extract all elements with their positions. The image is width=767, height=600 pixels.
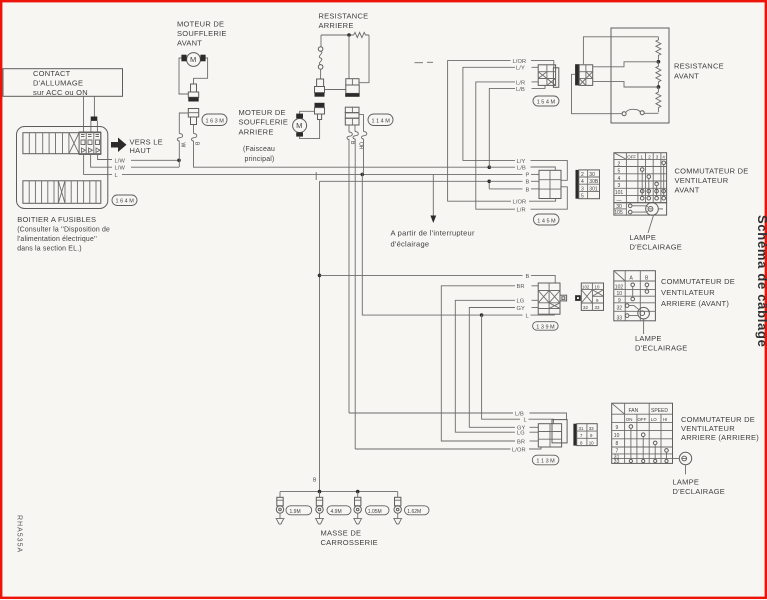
wire B bus from front motor to 145M xyxy=(194,141,490,167)
mate indicator (black square) xyxy=(575,295,581,301)
ground label 1.62M xyxy=(405,506,430,515)
svg-text:L/OR: L/OR xyxy=(513,59,527,65)
svg-text:33: 33 xyxy=(617,315,623,321)
svg-text:4: 4 xyxy=(581,179,584,185)
wire tap2 to connector xyxy=(593,81,659,87)
svg-text:30: 30 xyxy=(616,204,622,210)
wire OR from 114M down to 113M L/OR corner xyxy=(354,139,356,449)
svg-text:2: 2 xyxy=(581,172,584,178)
svg-text:1 6 3 M: 1 6 3 M xyxy=(206,118,225,124)
wire L from 114M hook down to L-bus node xyxy=(362,139,363,174)
svg-text:OFF: OFF xyxy=(627,154,636,159)
svg-text:9: 9 xyxy=(596,298,599,303)
fuse X cell xyxy=(69,133,79,154)
wire lamp to caption 139M xyxy=(643,319,645,334)
svg-text:7: 7 xyxy=(580,433,583,438)
resistor R3 (front) xyxy=(656,87,661,112)
svg-text:BR: BR xyxy=(517,284,525,290)
wire pad to fuse strip left xyxy=(90,121,92,133)
wire L/OR loop 154M to 145M xyxy=(531,61,554,68)
connector 139M block xyxy=(538,283,560,314)
wire L/B from 154M to B bus node xyxy=(532,85,546,88)
svg-text:B: B xyxy=(526,274,530,280)
wire B from 114M down to 113M L/B corner xyxy=(348,140,350,413)
svg-text:4.9M: 4.9M xyxy=(331,509,342,515)
svg-text:principal): principal) xyxy=(245,156,275,163)
fuse row bottom xyxy=(23,181,101,204)
svg-text:LO: LO xyxy=(651,417,657,422)
connector 145M block xyxy=(539,170,561,198)
wire 114M right hook with inline joint xyxy=(359,115,364,132)
contacts rear switch front xyxy=(631,283,635,287)
svg-text:(Faisceau: (Faisceau xyxy=(243,146,275,153)
node L/B junction xyxy=(488,165,492,169)
svg-text:105: 105 xyxy=(614,210,623,216)
svg-text:L: L xyxy=(115,173,118,179)
pin table 139M xyxy=(581,283,603,310)
svg-text:RESISTANCE: RESISTANCE xyxy=(674,62,724,71)
arrow VERS LE HAUT xyxy=(111,138,127,153)
wire LG loop 139M to 113M xyxy=(532,299,539,301)
ground terminal 3 xyxy=(357,492,359,498)
svg-text:L/B: L/B xyxy=(517,165,526,171)
svg-text:LAMPE: LAMPE xyxy=(635,334,662,343)
svg-text:33: 33 xyxy=(595,305,600,310)
svg-text:B: B xyxy=(645,275,649,281)
wire lamp to caption 113M xyxy=(685,465,687,475)
svg-text:1: 1 xyxy=(641,154,644,159)
switch contacts front xyxy=(662,161,666,165)
svg-text:CARROSSERIE: CARROSSERIE xyxy=(321,538,378,547)
wire pad to fuse strip right xyxy=(96,121,98,133)
svg-text:LAMPE: LAMPE xyxy=(630,233,657,242)
wire W drop with inline joint xyxy=(179,113,188,134)
svg-text:1 4 5 M: 1 4 5 M xyxy=(537,218,556,224)
svg-text:30B: 30B xyxy=(589,179,599,185)
svg-text:1 1 4 M: 1 1 4 M xyxy=(372,118,391,124)
svg-text:VENTILATEUR: VENTILATEUR xyxy=(675,176,729,185)
svg-text:MOTEUR DE: MOTEUR DE xyxy=(239,108,286,117)
wire GY loop 139M to 113M xyxy=(532,307,539,309)
svg-text:L/R: L/R xyxy=(516,80,525,86)
resistor R1 (front) xyxy=(656,37,661,60)
svg-text:1 6 4 M: 1 6 4 M xyxy=(116,199,135,205)
ground terminal 2 xyxy=(319,492,321,498)
svg-text:102: 102 xyxy=(582,285,590,290)
svg-text:COMMUTATEUR DE: COMMUTATEUR DE xyxy=(661,277,735,286)
svg-text:102: 102 xyxy=(615,284,624,290)
svg-text:4: 4 xyxy=(662,154,665,159)
ground label 1.9M xyxy=(286,506,312,515)
svg-text:D'ECLAIRAGE: D'ECLAIRAGE xyxy=(630,243,683,252)
svg-text:32: 32 xyxy=(583,305,588,310)
svg-text:GY: GY xyxy=(517,426,526,432)
svg-text:ARRIERE: ARRIERE xyxy=(319,21,354,30)
svg-text:d'éclairage: d'éclairage xyxy=(391,240,430,249)
wire resistor top xyxy=(321,34,354,36)
svg-text:31: 31 xyxy=(579,426,584,431)
svg-text:(Consulter la ''Disposition de: (Consulter la ''Disposition de xyxy=(17,227,110,234)
wire L/Y loop 154M to 145M xyxy=(532,66,539,68)
wire L/R loop 154M to 145M xyxy=(532,81,539,83)
node front resistor tap 2 xyxy=(657,85,661,89)
wire B to 145M (from ground riser corner) xyxy=(320,181,490,189)
connector label 145M xyxy=(534,214,560,225)
svg-text:D'ALLUMAGE: D'ALLUMAGE xyxy=(33,79,83,88)
svg-text:A partir de l'interrupteur: A partir de l'interrupteur xyxy=(391,229,475,238)
svg-text:9: 9 xyxy=(616,425,619,431)
motor M rear xyxy=(293,119,307,133)
svg-text:5: 5 xyxy=(618,169,621,175)
svg-text:CONTACT: CONTACT xyxy=(33,69,71,78)
svg-text:SOUFFLERIE: SOUFFLERIE xyxy=(239,118,289,127)
svg-text:L: L xyxy=(524,418,527,424)
svg-text:ARRIERE (ARRIERE): ARRIERE (ARRIERE) xyxy=(681,433,759,442)
wire L to 139M and 113M xyxy=(480,313,484,317)
wire motor front left brush xyxy=(179,58,189,94)
svg-text:L/B: L/B xyxy=(516,87,525,93)
thermal fuse xyxy=(644,112,658,114)
svg-text:B: B xyxy=(194,142,200,146)
svg-text:HI: HI xyxy=(663,417,667,422)
svg-text:L/R: L/R xyxy=(517,208,526,214)
svg-text:2: 2 xyxy=(648,154,651,159)
svg-text:SOUFFLERIE: SOUFFLERIE xyxy=(177,29,227,38)
connector front motor upper half xyxy=(191,84,197,92)
svg-text:8: 8 xyxy=(616,441,619,447)
svg-text:5: 5 xyxy=(581,194,584,200)
svg-text:BOITIER A FUSIBLES: BOITIER A FUSIBLES xyxy=(17,215,96,224)
svg-text:L/OR: L/OR xyxy=(513,200,527,206)
connector 113M offset half xyxy=(552,420,567,443)
svg-text:10: 10 xyxy=(614,433,620,439)
wire L bus drop to 139M xyxy=(362,174,481,315)
svg-text:101: 101 xyxy=(615,190,624,196)
wire arrow from lighting switch xyxy=(432,174,434,215)
svg-text:1.05M: 1.05M xyxy=(368,509,382,515)
fusible link block xyxy=(79,132,101,154)
svg-text:L/Y: L/Y xyxy=(517,159,526,165)
resistor R2 (front) xyxy=(656,62,661,86)
brush right xyxy=(200,55,205,62)
svg-text:A: A xyxy=(630,275,634,281)
contacts rear switch rear xyxy=(629,425,633,429)
svg-text:L/OR: L/OR xyxy=(512,447,526,453)
svg-text:1 1 3 M: 1 1 3 M xyxy=(536,459,555,465)
svg-text:AVANT: AVANT xyxy=(675,186,700,195)
connector label 164M xyxy=(112,195,137,206)
lamp symbol rear switch rear xyxy=(673,458,680,460)
svg-text:301: 301 xyxy=(589,186,598,192)
svg-text:AVANT: AVANT xyxy=(674,71,699,80)
ground terminal 1 xyxy=(279,492,281,498)
svg-text:VERS LE: VERS LE xyxy=(130,137,163,146)
svg-text:10: 10 xyxy=(589,440,594,445)
svg-text:LAMPE: LAMPE xyxy=(673,477,700,486)
connector label 139M xyxy=(533,322,559,331)
wire B to 139M xyxy=(320,274,523,276)
lamp symbol rear switch front xyxy=(625,304,629,308)
connector 113M block xyxy=(538,424,561,447)
wire top feed xyxy=(583,37,658,64)
wire BR loop 139M to 113M xyxy=(532,285,539,287)
svg-text:M: M xyxy=(296,121,303,130)
wire tap1 to connector xyxy=(593,62,659,67)
connector label 163M xyxy=(202,114,227,126)
wire L/B from B-wire corner to 113M xyxy=(349,412,513,414)
svg-text:LG: LG xyxy=(517,299,525,305)
ground bus xyxy=(280,491,398,493)
svg-text:D'ECLAIRAGE: D'ECLAIRAGE xyxy=(673,487,726,496)
svg-text:10: 10 xyxy=(595,285,600,290)
svg-text:OR: OR xyxy=(357,142,363,150)
svg-text:1 5 4 M: 1 5 4 M xyxy=(537,100,556,106)
resistor element (rear) xyxy=(354,32,369,37)
wire 114M pin B with inline joint xyxy=(348,125,350,132)
svg-text:32: 32 xyxy=(617,306,623,312)
ground terminal 4 xyxy=(397,492,399,498)
svg-text:l'alimentation électrique'': l'alimentation électrique'' xyxy=(17,236,97,243)
svg-text:B: B xyxy=(526,180,530,186)
fuse X cell bottom xyxy=(58,181,65,204)
svg-text:VENTILATEUR: VENTILATEUR xyxy=(661,288,715,297)
splice pad node xyxy=(91,117,98,121)
svg-text:1 3 9 M: 1 3 9 M xyxy=(536,324,555,330)
wire 114M pin OR with inline joint xyxy=(354,125,356,132)
connector label 114M xyxy=(368,114,393,126)
wire B drop with inline joint xyxy=(193,125,195,134)
stray print dashes xyxy=(415,62,424,64)
pin table 145M xyxy=(576,170,579,199)
svg-text:4: 4 xyxy=(618,176,621,182)
front resistor box: RESISTANCE AVANT xyxy=(611,28,669,123)
connector rear motor (to resistor harness) xyxy=(315,103,325,108)
svg-text:L/W: L/W xyxy=(115,159,126,165)
fuse row top xyxy=(23,133,101,154)
wire 114M link xyxy=(325,89,346,91)
svg-text:B: B xyxy=(349,141,355,145)
ground label 4.9M xyxy=(327,506,351,515)
svg-text:D'ECLAIRAGE: D'ECLAIRAGE xyxy=(635,344,688,353)
svg-text:OFF: OFF xyxy=(638,417,647,422)
wire resistor right branch xyxy=(359,35,369,83)
svg-text:Schéma de câblage: Schéma de câblage xyxy=(755,215,767,348)
svg-text:1.9M: 1.9M xyxy=(290,509,301,515)
svg-text:33: 33 xyxy=(614,459,620,465)
svg-text:BR: BR xyxy=(517,439,525,445)
svg-text:L: L xyxy=(526,314,529,320)
connector label 113M xyxy=(532,455,559,465)
svg-text:L/W: L/W xyxy=(115,166,126,172)
wire L/OR to 113M xyxy=(355,448,510,450)
svg-text:B: B xyxy=(313,478,317,484)
wire 114M top left pin up to resistor node xyxy=(348,35,350,79)
wire L from fuse box (main bus to P pin) xyxy=(84,154,112,175)
svg-text:GY: GY xyxy=(517,306,526,312)
svg-text:dans la section EL.): dans la section EL.) xyxy=(17,245,82,252)
svg-text:3: 3 xyxy=(581,186,584,192)
connector mate (resistor side) xyxy=(575,64,579,85)
svg-text:FAN: FAN xyxy=(629,408,639,414)
svg-text:3: 3 xyxy=(656,154,659,159)
svg-text:L/Y: L/Y xyxy=(516,66,525,72)
svg-text:ARRIERE (AVANT): ARRIERE (AVANT) xyxy=(661,299,729,308)
node L bus branch xyxy=(361,173,365,177)
wire lamp to caption xyxy=(648,215,654,233)
svg-text:9: 9 xyxy=(618,298,621,304)
pin table 113M xyxy=(573,424,576,446)
lamp symbol front switch xyxy=(628,204,632,208)
fuse box outline: BOITIER A FUSIBLES xyxy=(17,127,108,209)
svg-text:10: 10 xyxy=(617,291,623,297)
svg-text:AVANT: AVANT xyxy=(177,39,202,48)
brush top xyxy=(296,114,303,119)
rear fan switch (rear section) table xyxy=(612,403,673,463)
svg-text:33: 33 xyxy=(589,426,594,431)
connector 114M upper half xyxy=(346,79,359,85)
keying tab 139M xyxy=(560,295,567,301)
svg-text:1.62M: 1.62M xyxy=(407,509,421,515)
node front resistor tap 1 xyxy=(657,60,661,64)
svg-text:B: B xyxy=(526,187,530,193)
wire L/W upper from fuse box xyxy=(98,154,112,160)
fan switch front table xyxy=(614,153,667,203)
svg-text:30: 30 xyxy=(589,172,595,178)
wire rear motor top brush to connector xyxy=(300,111,315,113)
brush left xyxy=(181,55,186,62)
lamp rows 30 / 105 xyxy=(614,203,667,215)
wire rear motor bottom loop xyxy=(300,120,320,139)
ignition switch box: CONTACT D'ALLUMAGE xyxy=(3,69,123,97)
node B branch to 139M xyxy=(318,274,322,278)
svg-text:L/B: L/B xyxy=(515,411,524,417)
ground riser wire B xyxy=(319,181,321,491)
connector front motor lower half xyxy=(188,109,198,118)
wire from ignition switch pin 1 xyxy=(83,96,85,133)
svg-text:HAUT: HAUT xyxy=(130,146,152,155)
ground label 1.05M xyxy=(366,506,390,515)
svg-text:W: W xyxy=(180,143,186,148)
connector 114M lower half xyxy=(345,107,359,113)
wire left branch with coil xyxy=(320,35,322,47)
connector resistor-side upper half xyxy=(317,79,324,87)
svg-text:RHA535A: RHA535A xyxy=(16,515,23,553)
svg-text:3: 3 xyxy=(618,183,621,189)
svg-text:VENTILATEUR: VENTILATEUR xyxy=(681,424,735,433)
svg-text:M: M xyxy=(190,55,197,64)
svg-text:P: P xyxy=(526,173,530,179)
tick under L bus xyxy=(315,172,317,180)
svg-text:sur ACC ou ON: sur ACC ou ON xyxy=(33,88,88,97)
wire B second pin xyxy=(489,188,522,190)
svg-text:MASSE DE: MASSE DE xyxy=(321,529,362,538)
svg-text:ARRIERE: ARRIERE xyxy=(239,127,274,136)
wire from ignition switch pin 2 xyxy=(93,96,95,117)
wire L/W lower from fuse box xyxy=(91,154,112,168)
svg-text:MOTEUR DE: MOTEUR DE xyxy=(177,20,224,29)
svg-text:COMMUTATEUR DE: COMMUTATEUR DE xyxy=(675,167,749,176)
svg-text:COMMUTATEUR DE: COMMUTATEUR DE xyxy=(681,415,755,424)
connector 154M block xyxy=(553,68,558,88)
svg-text:RESISTANCE: RESISTANCE xyxy=(319,11,369,20)
svg-text:SPEED: SPEED xyxy=(651,408,668,414)
rear fan switch (front section) table xyxy=(614,271,656,321)
svg-text:2: 2 xyxy=(618,161,621,167)
wire motor front right brush xyxy=(194,58,208,84)
node L/W to W junction xyxy=(177,159,181,163)
svg-text:8: 8 xyxy=(580,440,583,445)
svg-text:ON: ON xyxy=(626,417,633,422)
motor M front xyxy=(187,53,201,67)
connector label 154M xyxy=(533,96,559,106)
svg-text:9: 9 xyxy=(590,433,593,438)
brush bottom xyxy=(296,132,303,136)
